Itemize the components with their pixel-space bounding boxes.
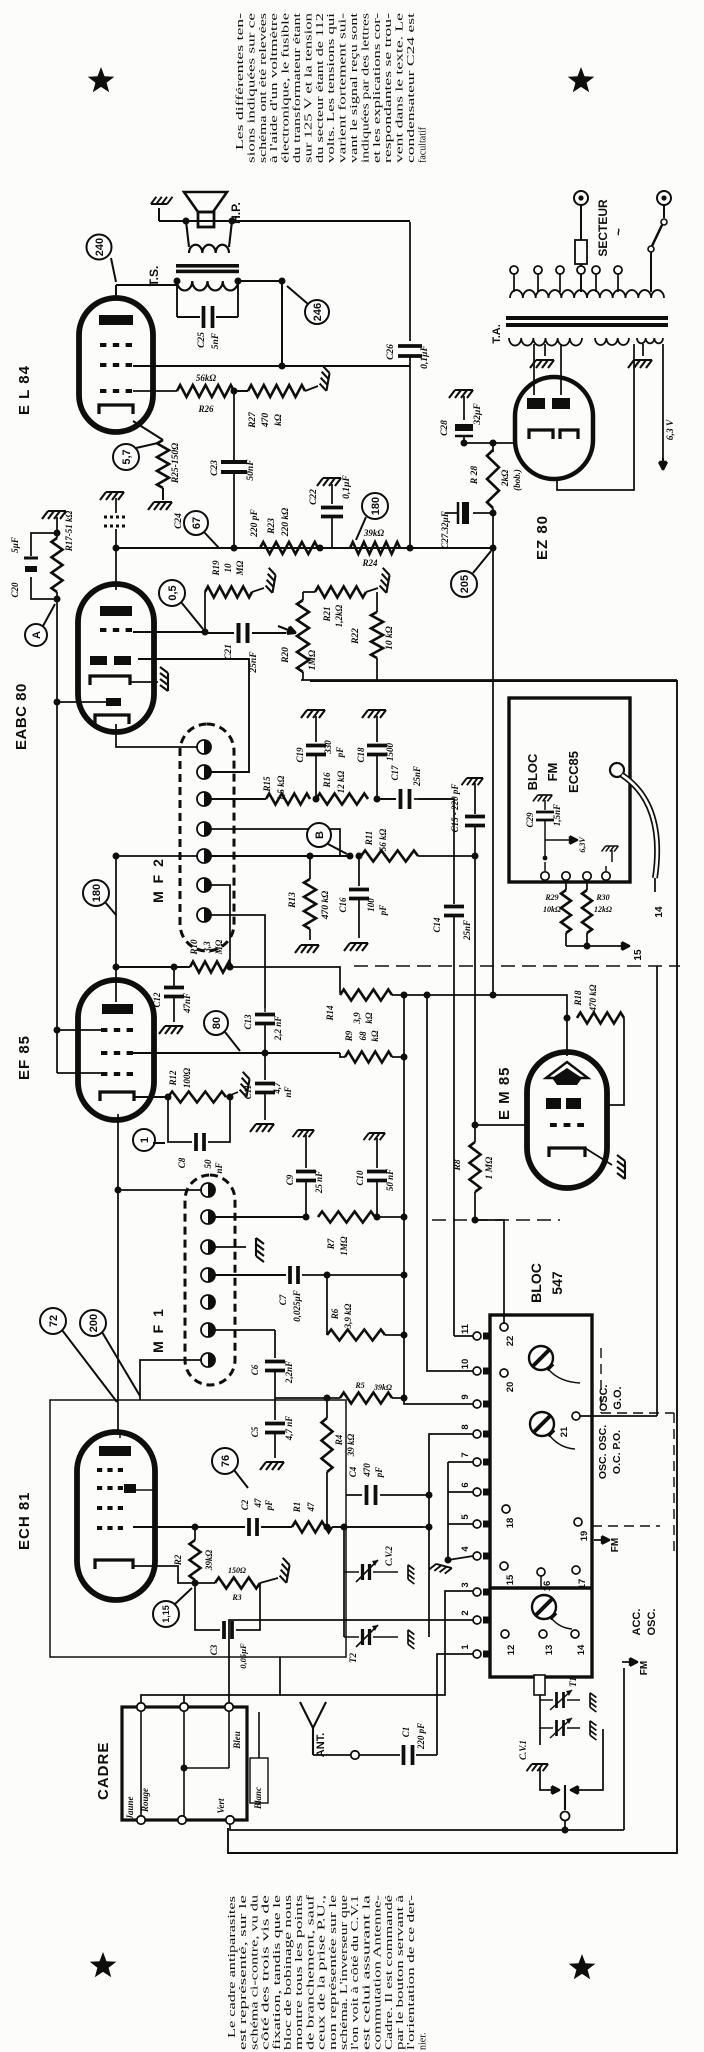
fuse: [580, 205, 582, 240]
svg-text:kΩ: kΩ: [370, 1030, 380, 1042]
wire EABC80 bottom to MF2 pin 1: [116, 724, 198, 747]
svg-text:C12: C12: [152, 992, 162, 1008]
MF1 pin 2: [201, 1210, 215, 1224]
MF2 pin 3: [197, 792, 211, 806]
wires pins 7 6 5 4 to ground bracket: [448, 1461, 473, 1463]
enclosure top frame line: [228, 681, 677, 1853]
svg-text:schéma ci-contre, vu du: schéma ci-contre, vu du: [249, 1895, 260, 2050]
svg-text:C23: C23: [210, 460, 220, 476]
svg-text:R7: R7: [326, 1238, 336, 1250]
capacitor C24 220pF (facultatif, dotted): [100, 492, 124, 500]
svg-text:R20: R20: [281, 647, 291, 664]
callout 1,15 V: [153, 1601, 179, 1627]
vertical wire x=120 EF85 bottom to ECH81 box: [117, 1114, 119, 1432]
svg-text:5µF: 5µF: [10, 537, 20, 553]
inner pin 20: [500, 1369, 508, 1377]
resistor R15 1,5k: [266, 794, 310, 805]
svg-text:C18: C18: [356, 747, 366, 763]
resistor R11 56k: [361, 851, 418, 862]
ECH81 grid rows: [97, 1468, 102, 1472]
resistor R7 1M: [318, 1212, 375, 1223]
EABC80 cathode: [90, 676, 130, 685]
T.S. secondary winding: [186, 221, 189, 247]
svg-text:R18: R18: [573, 990, 583, 1007]
svg-text:3,9 kΩ: 3,9 kΩ: [343, 1303, 353, 1329]
callout 5,7 V: [113, 444, 139, 470]
svg-text:25nF: 25nF: [412, 766, 422, 787]
capacitor C22 0,1uF: [317, 478, 341, 486]
capacitor C5 4,7nF: [274, 1400, 276, 1420]
svg-text:T.A.: T.A.: [491, 324, 503, 344]
resistor R12 100 ohm cathode: [133, 1096, 168, 1098]
inner pin 18: [502, 1505, 510, 1513]
svg-text:2: 2: [460, 1610, 471, 1615]
BLOC FM box: [509, 698, 630, 882]
EZ80 cathodes: [529, 430, 553, 439]
resistor R23 220k: [260, 542, 318, 554]
wire EL84 anode to output transformer: [115, 285, 117, 296]
resistor R9 68k: [340, 1053, 345, 1057]
svg-text:470: 470: [362, 1463, 372, 1478]
resistor R24 39k: [350, 542, 400, 554]
callout 72: [40, 1308, 66, 1334]
svg-text:0,5: 0,5: [167, 585, 179, 600]
wire pin10 up: [427, 995, 473, 1371]
decorative star bottom-right: [569, 1954, 596, 1979]
svg-text:non représentée sur le: non représentée sur le: [328, 1894, 339, 2050]
svg-text:BLOC: BLOC: [528, 1263, 544, 1303]
svg-text:schéma. L'inverseur que: schéma. L'inverseur que: [339, 1894, 350, 2050]
ECH81 anode plate: [99, 1446, 131, 1456]
svg-text:C27.32µF: C27.32µF: [440, 511, 450, 548]
svg-text:R1: R1: [292, 1502, 302, 1514]
ECH81 triode anode bar: [124, 1484, 136, 1493]
transformer T.A. primary winding: [510, 290, 664, 298]
wire pin3 to cadre Jaune line: [280, 1591, 473, 1695]
inner pin 13: [539, 1630, 547, 1638]
svg-text:6,3 V: 6,3 V: [666, 419, 676, 440]
svg-text:kΩ: kΩ: [274, 414, 284, 426]
wire pin1 to C1/antenna: [437, 1654, 473, 1755]
wire MF1 pin4 to C7: [214, 1274, 286, 1276]
ground EABC80 cathode: [130, 681, 158, 683]
svg-text:de branchement, sauf: de branchement, sauf: [305, 1894, 316, 2050]
svg-text:l'orientation de ce der-: l'orientation de ce der-: [406, 1895, 417, 2050]
capacitor C28 32uF: [449, 390, 473, 398]
svg-text:condensateur C24 est: condensateur C24 est: [406, 13, 417, 163]
T.A. HV secondary winding: [509, 338, 582, 346]
svg-text:M F 2: M F 2: [150, 857, 166, 903]
FM arrow lower: [622, 1661, 638, 1663]
loudspeaker H.P.: [184, 192, 227, 212]
svg-text:bloc de bobinage nous: bloc de bobinage nous: [283, 1895, 294, 2050]
svg-text:50: 50: [203, 1159, 213, 1169]
wire MF2 pin4 to AVC node: [210, 829, 340, 856]
svg-text:O.C. P.O.: O.C. P.O.: [611, 1430, 623, 1474]
svg-text:E L 84: E L 84: [16, 365, 33, 415]
FM arrow near pin 19: [594, 1539, 610, 1541]
ECH81 cathode: [95, 1560, 133, 1569]
ECH81 cathode wire to R2 node: [133, 1566, 195, 1583]
svg-text:1: 1: [139, 1137, 151, 1143]
resistor R4 39k: [326, 1398, 328, 1418]
inverseur antenne-cadre switch: [527, 1764, 549, 1771]
trimmer OSC PO: [530, 1412, 554, 1436]
svg-text:B: B: [314, 831, 326, 839]
svg-text:FM: FM: [610, 1538, 621, 1552]
svg-text:R6: R6: [330, 1308, 340, 1320]
MF1 pin 1: [201, 1183, 215, 1197]
svg-text:R14: R14: [325, 1005, 335, 1022]
svg-text:R24: R24: [361, 558, 378, 568]
EABC80 lower diode plate: [106, 698, 121, 706]
svg-text:C3: C3: [209, 1644, 219, 1655]
wire bloc to T1/CV1: [539, 1695, 541, 1745]
wire EZ80 heater: [557, 344, 634, 490]
wire pin22 to EM85 grid line: [475, 1220, 504, 1323]
svg-text:facultatif: facultatif: [417, 126, 428, 163]
svg-text:vant le signal reçu sont: vant le signal reçu sont: [349, 13, 360, 163]
resistor R27 470k: [234, 390, 248, 392]
C.V.1 variable cap: [540, 1727, 553, 1729]
svg-text:montre tous les points: montre tous les points: [294, 1895, 305, 2050]
svg-text:39kΩ: 39kΩ: [373, 1383, 392, 1392]
capacitor C26 0,1uF on B+ line: [409, 222, 411, 341]
svg-text:0,1µF: 0,1µF: [342, 474, 352, 498]
svg-text:68: 68: [358, 1031, 368, 1041]
resistor R25 150 ohm cathode: [133, 421, 163, 440]
CADRE internal windings: [140, 1711, 142, 1816]
svg-text:470: 470: [261, 413, 271, 429]
svg-text:nF: nF: [283, 1086, 293, 1097]
svg-text:BLOC: BLOC: [525, 753, 540, 790]
svg-text:11: 11: [460, 1323, 471, 1334]
svg-text:1,2kΩ: 1,2kΩ: [334, 604, 344, 627]
AVC line down left side: [56, 599, 58, 702]
wire MF1 pin1 to EF85/ECH81 line: [118, 1189, 202, 1191]
MF2 pin 5: [197, 849, 211, 863]
callout 180 V: [362, 493, 388, 519]
svg-text:R25-150Ω: R25-150Ω: [171, 443, 181, 484]
svg-text:volts. Les tensions qui: volts. Les tensions qui: [326, 13, 337, 163]
svg-text:3,3: 3,3: [202, 941, 212, 954]
resistor R29 10k: [565, 880, 567, 890]
svg-text:ECH 81: ECH 81: [16, 1491, 33, 1550]
resistor R30 12k: [586, 880, 588, 890]
capacitor C20 5uF: [31, 533, 57, 556]
wire MF2 pin7 screen feed: [210, 915, 265, 1008]
tube EABC80 envelope: [78, 584, 154, 732]
antenna symbol ANT: [300, 1702, 313, 1728]
wire Jaune to ECH81 box: [141, 1657, 280, 1703]
svg-text:OSC.: OSC.: [598, 1385, 610, 1412]
svg-text:15: 15: [505, 1574, 516, 1585]
svg-text:5nF: 5nF: [211, 332, 221, 349]
svg-text:220 pF: 220 pF: [416, 1723, 426, 1750]
svg-text:0,05µF: 0,05µF: [238, 1643, 248, 1669]
svg-text:C28: C28: [440, 420, 450, 436]
svg-text:C2: C2: [240, 1499, 250, 1510]
svg-text:12 kΩ: 12 kΩ: [336, 770, 346, 793]
IF transformer MF1 shield (dashed): [185, 1175, 235, 1385]
svg-text:R21: R21: [322, 606, 332, 622]
resistor R22 10k: [376, 592, 378, 612]
svg-text:0,1µF: 0,1µF: [420, 344, 430, 368]
vertical line x=657 right of EM85: [656, 966, 658, 1416]
BLOC 547 terminals 11..1: [473, 1332, 481, 1340]
wire rail to EABC80 anode: [115, 548, 117, 590]
svg-text:C15 - 220 pF: C15 - 220 pF: [450, 784, 460, 833]
inner pin 19: [574, 1518, 582, 1526]
EABC80 triode grid: [100, 628, 106, 632]
dashed screen partition lines: [600, 1348, 602, 1413]
inner pin 14: [571, 1630, 579, 1638]
EL84 anode plate: [99, 315, 133, 325]
svg-text:à l'aide d'un voltmètre: à l'aide d'un voltmètre: [269, 12, 280, 163]
wire pin11 to AM detector line: [454, 1335, 473, 1337]
svg-text:C4: C4: [348, 1466, 358, 1477]
svg-text:nF: nF: [214, 1162, 224, 1173]
variable capacitor C.V.2: [343, 1527, 345, 1572]
resistor R26 56k: [177, 385, 234, 397]
label Blanc with box: [250, 1758, 268, 1803]
T1 coil former crossing box edge: [534, 1675, 545, 1695]
heater arrow 6,3V in bloc: [545, 839, 567, 841]
wire R11 to C15 node: [418, 855, 475, 857]
svg-text:56kΩ: 56kΩ: [196, 373, 217, 383]
wire speaker line: [159, 220, 410, 222]
wire R10 to R14 row: [232, 967, 340, 993]
svg-text:par le bouton servant à: par le bouton servant à: [395, 1894, 406, 2050]
svg-text:39kΩ: 39kΩ: [204, 1550, 214, 1572]
svg-text:EF 85: EF 85: [16, 1035, 33, 1080]
svg-text:R29: R29: [544, 893, 558, 902]
trimmer OSC GO: [529, 1346, 553, 1370]
svg-text:R3: R3: [231, 1593, 241, 1602]
svg-text:Les différentes ten-: Les différentes ten-: [235, 13, 246, 150]
capacitor C27 32uF: [490, 510, 497, 517]
svg-text:vent dans le texte. Le: vent dans le texte. Le: [395, 12, 406, 163]
antenna terminal: [313, 1754, 350, 1756]
svg-text:C.V.2: C.V.2: [384, 1546, 394, 1566]
HT rail wire y=548: [116, 547, 493, 549]
svg-text:SECTEUR: SECTEUR: [596, 199, 610, 257]
svg-text:CADRE: CADRE: [95, 1742, 112, 1800]
svg-text:respondantes se trou-: respondantes se trou-: [383, 13, 394, 163]
svg-text:180: 180: [91, 884, 103, 902]
mains switch: [663, 205, 665, 218]
svg-text:R16: R16: [322, 772, 332, 789]
svg-text:47nF: 47nF: [182, 993, 192, 1014]
resistor R8 1M: [474, 1125, 476, 1142]
wire ECH81 grid line: [133, 1526, 245, 1528]
wire into ECH81 top: [119, 1432, 121, 1438]
wire EABC80 grid (0,5 node): [133, 631, 205, 633]
svg-text:17: 17: [577, 1579, 588, 1590]
svg-text:FM: FM: [639, 1661, 650, 1675]
MF2 pin 2: [197, 765, 211, 779]
EM85 grid: [550, 1123, 557, 1127]
resistor R1 47: [292, 1522, 332, 1533]
EM85 anode plates: [546, 1098, 561, 1109]
wire T.S. primary to B+ node: [238, 280, 282, 282]
svg-text:l'on voit à côté du C.V.1: l'on voit à côté du C.V.1: [350, 1895, 361, 2050]
callout 200: [80, 1310, 106, 1336]
svg-text:C29: C29: [525, 812, 535, 828]
svg-text:est celui assurant la: est celui assurant la: [361, 1894, 372, 2050]
svg-text:2,2nF: 2,2nF: [284, 1361, 294, 1384]
svg-text:Rouge: Rouge: [140, 1788, 150, 1813]
T.A. heater winding 2 (EZ80): [637, 338, 663, 343]
tube EL84 envelope: [79, 298, 153, 432]
wire EF85 screen line: [133, 1052, 340, 1054]
svg-text:(bob.): (bob.): [512, 469, 522, 491]
svg-text:470 kΩ: 470 kΩ: [588, 984, 598, 1012]
wire EF85 anode up to MF2 pin5 line: [115, 856, 117, 1002]
svg-text:25nF: 25nF: [462, 920, 472, 941]
capacitor C23 50nF: [221, 460, 247, 464]
svg-text:T1: T1: [568, 1677, 578, 1687]
svg-text:nier.: nier.: [417, 2033, 428, 2051]
svg-text:C16: C16: [338, 897, 348, 913]
AVC return bus wire: [301, 679, 677, 681]
svg-text:R12: R12: [168, 1070, 178, 1087]
callout 240 V: [87, 235, 112, 260]
svg-text:T2: T2: [348, 1653, 358, 1663]
svg-text:sions indiquées sur ce: sions indiquées sur ce: [246, 12, 257, 163]
svg-text:fixation, tandis que le: fixation, tandis que le: [272, 1894, 283, 2050]
mains plug left: [574, 191, 588, 205]
svg-text:et les explications cor-: et les explications cor-: [372, 13, 383, 163]
svg-text:6,3V: 6,3V: [578, 837, 587, 853]
AVC line extension: [56, 1012, 58, 1073]
BLOC 547 box: [490, 1315, 592, 1677]
svg-text:1 MΩ: 1 MΩ: [485, 1157, 495, 1180]
inner pin 12: [501, 1630, 509, 1638]
svg-text:100: 100: [366, 898, 376, 912]
tube EZ80 envelope: [515, 377, 593, 479]
wire MF2 pin3 to R15: [210, 798, 266, 800]
EABC80 triode anode: [100, 606, 132, 616]
resistor R18 470k: [577, 1013, 624, 1024]
resistor R3 150 ohm: [195, 1582, 215, 1584]
CADRE terminals top: [137, 1703, 145, 1711]
svg-text:150Ω: 150Ω: [228, 1566, 246, 1575]
dashed shield line above EM85: [354, 965, 680, 967]
svg-text:220 pF: 220 pF: [250, 508, 260, 537]
svg-text:14: 14: [576, 1644, 587, 1655]
tube ECH81 envelope: [77, 1432, 155, 1600]
svg-text:2,2 nF: 2,2 nF: [273, 1016, 283, 1042]
svg-text:R22: R22: [351, 628, 361, 645]
svg-text:C5: C5: [250, 1426, 260, 1437]
ground right of R27: [305, 386, 318, 391]
EABC80 lower cathode: [95, 715, 129, 724]
wire R18 node to EM85 target: [566, 1018, 568, 1056]
svg-text:1,15: 1,15: [161, 1605, 171, 1623]
svg-text:OSC. OSC.: OSC. OSC.: [597, 1425, 609, 1479]
svg-text:5: 5: [460, 1514, 471, 1520]
svg-text:R17-51 kΩ: R17-51 kΩ: [64, 510, 74, 552]
svg-text:50nF: 50nF: [246, 459, 256, 481]
capacitor C29 1,5nF: [533, 795, 552, 801]
svg-text:4: 4: [460, 1546, 471, 1552]
wire B+ to R18 node: [493, 995, 567, 1018]
svg-text:~: ~: [611, 228, 626, 236]
CADRE terminals bottom: [137, 1816, 145, 1824]
resistor R13 470k: [309, 856, 311, 879]
wire EZ80 cathode to filter: [493, 442, 515, 444]
wire B+ down from transformer: [281, 281, 283, 366]
svg-text:47: 47: [306, 1502, 316, 1513]
wire grid line to pin8 bus: [332, 1526, 429, 1528]
wire EABC80 diode to left AVC line: [57, 701, 106, 703]
svg-text:39 kΩ: 39 kΩ: [346, 1433, 356, 1457]
svg-text:est représenté, sur le: est représenté, sur le: [238, 1894, 249, 2050]
svg-text:1500: 1500: [385, 743, 395, 762]
svg-text:14: 14: [654, 906, 665, 918]
svg-text:22: 22: [505, 1336, 516, 1347]
capacitor C17 25nF: [377, 798, 396, 800]
svg-text:9: 9: [460, 1394, 471, 1399]
svg-text:67: 67: [191, 517, 203, 529]
svg-text:C6: C6: [250, 1364, 260, 1375]
MF2 pin 7: [197, 908, 211, 922]
decorative star top-right: [568, 67, 595, 92]
wire pin9 up (x=404 bus): [404, 995, 473, 1404]
wire MF1 pin2 to R7: [214, 1216, 306, 1218]
svg-text:FM: FM: [545, 763, 560, 782]
svg-text:200: 200: [88, 1314, 100, 1332]
svg-text:12: 12: [506, 1645, 517, 1656]
ECH81 section frame box: [50, 1400, 346, 1657]
svg-text:1,5nF: 1,5nF: [552, 804, 562, 826]
wire R29 R30 junction to 15: [566, 945, 587, 947]
svg-text:R5: R5: [354, 1381, 364, 1390]
svg-text:R23: R23: [267, 518, 277, 535]
svg-text:C24: C24: [174, 513, 184, 529]
capacitor C18 1500pF: [362, 710, 386, 718]
resistor R19 10M to ground: [204, 592, 206, 632]
svg-text:205: 205: [459, 575, 471, 593]
svg-text:C13: C13: [243, 1014, 253, 1030]
wire screen feed to EL84: [133, 365, 410, 367]
svg-text:M F 1: M F 1: [150, 1307, 166, 1353]
HV center tap ground: [544, 344, 546, 356]
callout 180 V (left): [83, 880, 109, 906]
svg-text:1MΩ: 1MΩ: [308, 650, 318, 670]
EF85 anode plate: [102, 1004, 133, 1014]
MF2 pin 4: [197, 822, 211, 836]
wire MF1 pin7 down to ECH81 box: [140, 1360, 202, 1400]
svg-text:C10: C10: [355, 1170, 365, 1186]
T.A. heater winding 1: [595, 338, 629, 345]
svg-text:15: 15: [633, 949, 644, 961]
svg-text:2kΩ: 2kΩ: [501, 470, 511, 488]
resistor R16 12k: [316, 794, 368, 805]
svg-text:pF: pF: [335, 747, 345, 759]
svg-text:R27: R27: [248, 411, 258, 429]
svg-text:18: 18: [505, 1518, 516, 1529]
svg-text:Le cadre antiparasites: Le cadre antiparasites: [227, 1896, 238, 2038]
svg-text:R19: R19: [211, 560, 221, 577]
EABC80 diode plates: [90, 656, 107, 665]
resistor R14 3,9k: [340, 990, 392, 1001]
capacitor C21 25nF: [205, 632, 234, 634]
callout 80 V: [204, 1011, 228, 1035]
ground in bloc FM: [602, 846, 619, 852]
MF1 pin 6: [201, 1323, 215, 1337]
